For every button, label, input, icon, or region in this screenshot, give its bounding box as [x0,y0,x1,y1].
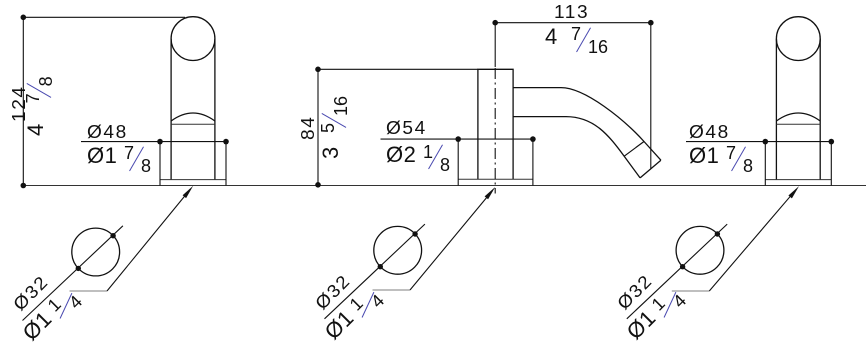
arrowhead middle [485,187,496,199]
dimension line diameter 48 left [81,141,226,143]
leader line middle [410,191,493,291]
left handle body [171,39,215,180]
diag dimension line middle [325,224,425,319]
label diameter 48 right metric [689,123,730,141]
leader landing middle [373,289,411,291]
diag dimension line right [627,224,727,319]
right flange extension lines [765,142,831,186]
label diameter 1 1/4 bottom-left imperial rotated [19,284,80,345]
dimension 124 vertical [22,17,24,185]
bottom hole circle left [72,228,120,276]
spout tip end face [640,160,661,178]
right handle joint arc [776,113,820,121]
label diameter 1 7/8 left imperial [87,145,151,167]
spout column [478,69,513,179]
spout arm bottom outline [513,117,640,178]
dimension line diameter 48 right [686,141,831,143]
leader landing right [672,290,710,292]
spout flange [458,178,533,180]
left handle knob [171,17,215,61]
dimension 84 vertical [317,69,319,185]
label diameter 1 1/4 bottom-right imperial rotated [623,283,684,344]
bottom hole circle right [676,226,724,274]
leader landing left [70,290,108,292]
spout arm top outline [513,88,661,161]
arrowhead left [183,186,194,198]
right handle neck top line [776,123,820,125]
diag dimension line left [23,226,123,321]
arrowhead right [788,186,799,198]
label diameter 2 1/8 imperial [386,144,450,166]
left flange extension lines [160,142,226,186]
label 84 metric rotated [299,115,317,139]
dimension 113 horizontal [495,22,651,24]
right handle knob [776,17,820,61]
spout centerline [494,23,496,67]
left handle neck top line [171,123,215,125]
bottom hole circle middle [374,226,422,274]
label diameter 32 bottom-left metric rotated [10,272,52,314]
leader line left [107,189,191,291]
leader line right [709,189,796,291]
dimension line diameter 54 [381,138,533,140]
label 124 metric rotated [10,85,28,122]
label diameter 48 left metric [87,123,128,141]
label diameter 1 1/4 bottom-middle imperial rotated [321,283,382,344]
countertop line [23,185,866,187]
label diameter 54 metric [386,119,427,137]
spout tip cross line [624,142,644,157]
left handle joint arc [171,113,215,121]
label 113 metric [554,3,589,21]
label diameter 32 bottom-middle metric rotated [312,271,354,313]
label 3 5/16 imperial rotated [320,96,342,159]
right handle flange [765,179,831,181]
label diameter 1 7/8 right imperial [689,145,753,167]
spout flange extension lines [458,139,533,185]
left handle flange [160,179,226,181]
right handle body [776,39,820,180]
label 4 7/8 imperial rotated [25,76,47,136]
label diameter 32 bottom-right metric rotated [614,271,656,313]
label 4 7/16 imperial [545,26,608,48]
